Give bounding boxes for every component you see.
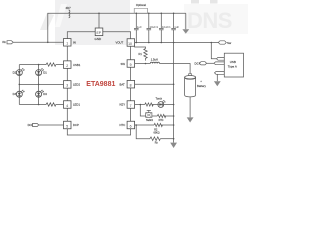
- pin 5: [64, 121, 72, 129]
- wire SW to battery: [160, 64, 191, 76]
- connector USB Type A: [224, 53, 243, 77]
- wire NTC row: [135, 124, 154, 126]
- resistor R1 stub: [135, 46, 146, 49]
- wire SW row: [135, 63, 151, 65]
- usb pin VBUS: [217, 57, 225, 60]
- svg-text:Battery: Battery: [197, 84, 206, 88]
- resistor R4: [145, 103, 153, 106]
- svg-text:6: 6: [130, 124, 132, 128]
- svg-text:2: 2: [66, 64, 68, 68]
- ground arrow bottom: [170, 143, 177, 148]
- wire LED top row: [19, 64, 46, 66]
- svg-text:GND: GND: [95, 37, 103, 41]
- svg-text:Torch: Torch: [156, 96, 163, 100]
- svg-text:D3: D3: [43, 92, 47, 96]
- resistor R7: [150, 137, 160, 141]
- watermark tab 2: [210, 0, 218, 4]
- ground arrow battery: [189, 97, 191, 118]
- svg-text:4: 4: [66, 104, 68, 108]
- capacitor C4 on gnd bus: [171, 13, 179, 30]
- port Sw: [218, 41, 226, 44]
- resistor R2: [46, 63, 56, 66]
- junction: [38, 64, 40, 66]
- svg-text:9: 9: [130, 63, 132, 67]
- LED D3: [36, 90, 48, 97]
- svg-text:SW: SW: [121, 62, 126, 66]
- pin 7: [127, 101, 135, 109]
- LED column wire left: [18, 65, 20, 105]
- svg-text:IN: IN: [73, 41, 76, 45]
- svg-text:D4: D4: [13, 92, 17, 96]
- wire LED bottom row: [19, 104, 46, 106]
- pin 3: [64, 81, 72, 89]
- svg-text:Switch: Switch: [146, 119, 154, 122]
- battery B1: [185, 74, 196, 97]
- pad EP: [95, 28, 103, 36]
- resistor R3: [46, 103, 56, 106]
- svg-text:Type A: Type A: [228, 65, 237, 69]
- wire LED mid row: [19, 83, 63, 85]
- ground arrow top: [185, 13, 187, 29]
- wire button branch: [140, 105, 144, 117]
- watermark tab 1: [191, 0, 199, 4]
- wire DCP to usb: [207, 62, 214, 64]
- svg-text:3: 3: [66, 84, 68, 88]
- capacitor C1: [134, 13, 142, 42]
- watermark blob right: [184, 4, 248, 34]
- svg-text:1uF: 1uF: [137, 25, 142, 29]
- wire usb gnd: [216, 74, 218, 81]
- gnd bus vertical: [173, 30, 175, 143]
- LED D1: [36, 68, 48, 75]
- optional bracket: [134, 9, 148, 14]
- svg-text:BAT: BAT: [120, 83, 126, 87]
- svg-text:VOUT: VOUT: [116, 41, 124, 45]
- svg-text:LED1: LED1: [73, 103, 80, 107]
- EP stub wire: [98, 13, 100, 28]
- resistor R5: [152, 115, 157, 117]
- svg-text:10uF/1: 10uF/1: [162, 25, 171, 29]
- pin 6: [127, 121, 135, 129]
- svg-text:8: 8: [130, 84, 132, 88]
- svg-text:NTC: NTC: [120, 123, 126, 127]
- inductor L1 on rail: [69, 10, 70, 18]
- svg-text:D1: D1: [43, 71, 47, 75]
- inductor L2: [150, 62, 159, 63]
- svg-text:Optional: Optional: [136, 3, 146, 7]
- usb pin GND: [215, 72, 225, 75]
- watermark wash top-center: [55, 0, 130, 45]
- svg-text:4R7: 4R7: [66, 6, 72, 10]
- LED D2: [13, 68, 25, 75]
- pin 9: [127, 60, 135, 68]
- wire VOUT to Sw: [135, 42, 219, 44]
- svg-text:USB: USB: [230, 60, 236, 64]
- svg-text:NTC: NTC: [159, 119, 164, 122]
- wire KEY row: [135, 104, 145, 106]
- svg-text:ETA9881: ETA9881: [86, 81, 115, 88]
- watermark blob top-left: [40, 13, 54, 30]
- svg-text:7: 7: [130, 104, 132, 108]
- wire parallel R branch: [136, 125, 150, 139]
- wire VBUS drop: [211, 43, 216, 59]
- watermark letter cutout: [55, 4, 67, 27]
- svg-text:D2: D2: [13, 71, 17, 75]
- junction IN/rail: [47, 42, 49, 44]
- svg-text:10uF/1: 10uF/1: [150, 25, 159, 29]
- svg-text:1uF: 1uF: [174, 25, 179, 29]
- svg-text:1: 1: [66, 42, 68, 46]
- wire IN: [13, 41, 63, 43]
- led arrowheads: [22, 68, 24, 69]
- pin 1: [64, 39, 72, 47]
- wire BAT row: [135, 83, 174, 85]
- IC U1 body: [67, 32, 130, 135]
- pin 2: [64, 61, 72, 69]
- svg-text:1.5uH: 1.5uH: [151, 58, 158, 62]
- svg-text:Vin: Vin: [2, 40, 6, 44]
- svg-text:DCP: DCP: [73, 123, 79, 127]
- ground arrow usb: [214, 81, 221, 86]
- LED column wire right: [38, 65, 40, 105]
- pin 8: [127, 80, 135, 88]
- svg-text:LED2: LED2: [73, 83, 80, 87]
- svg-text:60KΩ: 60KΩ: [154, 132, 160, 135]
- svg-text:5: 5: [66, 124, 68, 128]
- pin 10: [127, 39, 135, 47]
- resistor R6 NTC: [154, 123, 162, 126]
- pin 4: [64, 101, 72, 109]
- wire after torch: [164, 104, 174, 106]
- push button S1: [144, 110, 152, 117]
- junction dots on rail: [136, 13, 138, 15]
- svg-text:R1: R1: [139, 52, 143, 56]
- LED D5 torch: [158, 101, 165, 108]
- wire DCP to pin5: [39, 124, 64, 126]
- svg-text:DNS: DNS: [187, 8, 232, 33]
- capacitor C3: [159, 13, 171, 42]
- svg-text:KEY: KEY: [120, 103, 126, 107]
- usb pin DCP: [214, 62, 224, 65]
- wire top GND rail: [48, 13, 186, 42]
- svg-text:10: 10: [128, 42, 132, 46]
- capacitor C2: [147, 13, 159, 42]
- svg-text:EP: EP: [97, 31, 102, 35]
- resistor R1: [144, 49, 147, 61]
- LED D4: [13, 90, 25, 97]
- svg-text:USB1: USB1: [73, 63, 81, 67]
